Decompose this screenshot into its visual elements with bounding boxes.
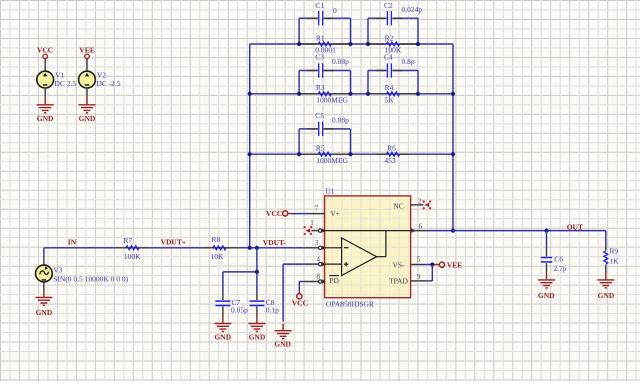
svg-text:GND: GND: [214, 333, 231, 342]
svg-text:GND: GND: [598, 291, 615, 300]
op-amp U1 body: [325, 196, 411, 298]
svg-text:OPA858IDSGR: OPA858IDSGR: [326, 299, 374, 308]
wire resistor rail: [250, 153, 453, 155]
svg-text:R5: R5: [316, 144, 325, 153]
svg-text:VS-: VS-: [392, 260, 405, 269]
svg-text:C4: C4: [384, 53, 393, 62]
junction: [416, 92, 420, 96]
svg-text:R6: R6: [387, 144, 396, 153]
junction: [416, 42, 420, 46]
svg-text:GND: GND: [36, 308, 53, 317]
svg-text:U1: U1: [325, 187, 334, 196]
svg-text:1000MEG: 1000MEG: [316, 96, 348, 105]
svg-text:C5: C5: [315, 111, 324, 120]
ground under C8: [248, 317, 265, 332]
svg-text:2: 2: [418, 197, 422, 205]
svg-text:R9: R9: [609, 247, 618, 256]
voltage source V1: [44, 59, 46, 71]
svg-text:5K: 5K: [385, 96, 395, 105]
wire right feedback bus: [452, 44, 454, 231]
junction: [366, 42, 370, 46]
junction: [348, 92, 352, 96]
svg-text:0.024p: 0.024p: [402, 5, 423, 14]
capacitor C6: [546, 231, 548, 248]
svg-text:VDUT-: VDUT-: [263, 238, 287, 247]
junction: [255, 246, 259, 250]
resistor R3: [318, 92, 331, 96]
svg-text:R3: R3: [316, 83, 325, 92]
junction: [248, 92, 252, 96]
svg-text:5: 5: [417, 256, 421, 264]
svg-text:SIN(0 0.5 10000K 0 0 0): SIN(0 0.5 10000K 0 0 0): [53, 274, 128, 283]
wire resistor rail: [250, 93, 453, 95]
resistor R6: [387, 152, 400, 156]
svg-text:3: 3: [315, 239, 319, 247]
capacitor C2: [367, 18, 369, 44]
svg-text:0.05p: 0.05p: [231, 305, 248, 314]
svg-text:R1: R1: [316, 33, 325, 42]
wire pin4 to ground: [282, 264, 284, 322]
resistor R2: [387, 42, 400, 46]
svg-text:0.1p: 0.1p: [266, 305, 279, 314]
internal output wire: [377, 256, 386, 258]
junction: [248, 152, 252, 156]
pin 2 (no ERC): [411, 204, 424, 206]
svg-text:2.7p: 2.7p: [553, 264, 566, 273]
pin 8: [305, 281, 325, 283]
svg-text:8: 8: [316, 272, 320, 280]
svg-text:GND: GND: [79, 114, 96, 123]
svg-text:VEE: VEE: [79, 45, 94, 54]
capacitor C7: [222, 272, 224, 292]
junction: [348, 152, 352, 156]
junction: [297, 42, 301, 46]
svg-text:TPAD: TPAD: [389, 276, 408, 285]
svg-text:NC: NC: [393, 201, 403, 210]
svg-text:C2: C2: [384, 1, 393, 10]
pin 1 (no ERC): [311, 230, 325, 232]
junction: [248, 246, 252, 250]
svg-text:GND: GND: [274, 339, 291, 348]
capacitor C5: [298, 129, 300, 154]
capacitor C4: [367, 71, 369, 94]
svg-text:V3: V3: [53, 265, 62, 274]
svg-text:R2: R2: [385, 33, 394, 42]
svg-text:VCC: VCC: [37, 45, 53, 54]
pin leads R5: [300, 153, 318, 155]
ground under R9: [597, 273, 614, 288]
svg-text:10K: 10K: [211, 252, 225, 261]
voltage source V2: [86, 59, 88, 71]
svg-text:C3: C3: [315, 53, 324, 62]
svg-text:R4: R4: [385, 83, 394, 92]
svg-text:0.08p: 0.08p: [332, 57, 349, 66]
junction: [297, 152, 301, 156]
op-amp triangle: [342, 238, 377, 276]
resistor R7: [126, 246, 139, 250]
svg-text:R8: R8: [212, 235, 221, 244]
svg-text:100K: 100K: [124, 252, 141, 261]
pin 4: [305, 263, 325, 265]
svg-text:DC -2.5: DC -2.5: [96, 79, 120, 88]
svg-text:6: 6: [419, 223, 423, 231]
svg-text:GND: GND: [538, 291, 555, 300]
junction: [297, 92, 301, 96]
svg-text:R7: R7: [123, 236, 132, 245]
junction: [451, 152, 455, 156]
svg-text:C1: C1: [315, 1, 324, 10]
svg-text:9: 9: [417, 273, 421, 281]
resistor R4: [387, 92, 400, 96]
ground under C7: [214, 317, 231, 332]
capacitor C1: [298, 18, 300, 44]
power flag VEE: [439, 262, 444, 267]
capacitor C8: [256, 272, 258, 292]
svg-text:GND: GND: [249, 333, 266, 342]
pin leads R2: [368, 43, 386, 45]
pin 6 output: [411, 228, 417, 233]
svg-text:V+: V+: [330, 209, 340, 218]
svg-text:0.08p: 0.08p: [332, 115, 349, 124]
svg-text:VDUT+: VDUT+: [161, 238, 187, 247]
svg-text:1: 1: [310, 219, 314, 227]
svg-text:IN: IN: [68, 237, 77, 246]
svg-text:GND: GND: [37, 114, 54, 123]
resistor R8: [213, 246, 226, 250]
svg-text:C6: C6: [554, 254, 563, 263]
resistor R5: [318, 152, 331, 156]
resistor R1: [318, 42, 331, 46]
wire to C7/C8: [256, 248, 258, 272]
pin 3: [304, 247, 325, 249]
pin 5 to VEE: [411, 264, 424, 266]
power flag VCC (pin8): [297, 294, 302, 299]
pin 7: [309, 213, 325, 215]
resistor R9: [605, 231, 607, 243]
wire input rail: [44, 247, 115, 249]
svg-text:0: 0: [333, 6, 337, 15]
svg-text:VCC: VCC: [292, 299, 308, 308]
internal input stubs: [325, 247, 342, 249]
wire output rail: [453, 230, 606, 232]
svg-text:OUT: OUT: [567, 223, 583, 232]
svg-text:7: 7: [315, 205, 319, 213]
ground under V2: [79, 98, 96, 113]
ground under C6: [538, 273, 555, 288]
svg-text:PD: PD: [329, 276, 339, 285]
svg-text:VCC: VCC: [266, 209, 282, 218]
wire resistor rail: [250, 43, 453, 45]
voltage source V3: [43, 248, 45, 258]
svg-text:453: 453: [384, 156, 396, 165]
svg-text:1K: 1K: [609, 256, 619, 265]
capacitor C3: [298, 71, 300, 94]
svg-text:1000MEG: 1000MEG: [316, 156, 348, 165]
junction: [348, 42, 352, 46]
junction: [366, 92, 370, 96]
svg-text:0.8p: 0.8p: [402, 57, 415, 66]
svg-text:VEE: VEE: [447, 261, 462, 270]
pin leads R4: [368, 93, 386, 95]
junction: [451, 92, 455, 96]
pin leads R6: [376, 153, 386, 155]
pin 9: [411, 280, 426, 282]
ground under V1: [37, 98, 54, 113]
svg-text:DC 2.5: DC 2.5: [55, 79, 77, 88]
ground pin 4: [275, 324, 292, 339]
pin leads R1: [300, 43, 318, 45]
ground under V3: [35, 290, 52, 305]
pin leads R3: [300, 93, 318, 95]
wire left feedback bus: [249, 44, 251, 248]
